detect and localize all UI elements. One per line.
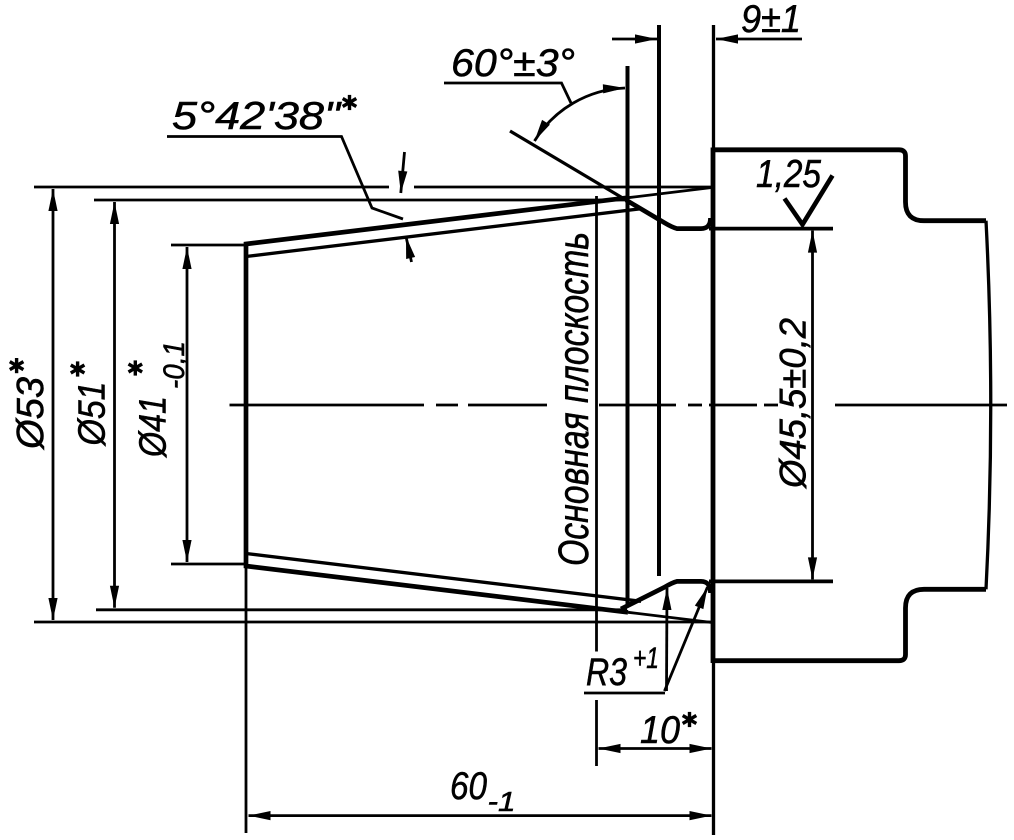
dia51 extension line top (94, 199, 627, 202)
svg-text:1,25: 1,25 (756, 153, 821, 196)
extension line for 10 dim lower part (595, 700, 598, 766)
dia41 extension stub top (171, 244, 247, 247)
extension line below flange face (712, 660, 715, 835)
chamfer + fillet + neck outline top (626, 200, 711, 229)
svg-text:10: 10 (640, 709, 680, 752)
star of dia41 (129, 360, 143, 375)
extension line for 10 dim upper part (595, 196, 598, 652)
svg-text:Ø53: Ø53 (10, 377, 52, 451)
dia41 dimension line (186, 247, 189, 562)
R3 diagonal arrow (665, 587, 708, 691)
svg-text:Ø45,5±0,2: Ø45,5±0,2 (773, 318, 814, 490)
center line (axis) dash-dot (230, 404, 1008, 407)
svg-text:Ø41: Ø41 (133, 396, 175, 459)
svg-text:5°42'38": 5°42'38" (172, 95, 342, 138)
taper top thin continuation to flange face (628, 187, 713, 197)
svg-text:Ø51: Ø51 (72, 382, 114, 448)
svg-text:Основная плоскость: Основная плоскость (550, 232, 598, 566)
svg-text:-0,1: -0,1 (158, 341, 191, 389)
60-degree chamfer thin extension line (top) (510, 131, 626, 200)
dia51 dimension line (113, 202, 116, 608)
60 degree leader (444, 83, 571, 103)
svg-text:60°±3°: 60°±3° (451, 42, 575, 85)
neck extension line right top (for dia 45.5) (709, 227, 833, 231)
svg-text:+1: +1 (633, 642, 659, 675)
flange outline top (713, 150, 986, 221)
break line arc right (986, 221, 991, 590)
svg-text:R3: R3 (586, 651, 627, 694)
svg-text:9±1: 9±1 (741, 0, 801, 41)
svg-text:60: 60 (450, 765, 487, 808)
extension line x659 (657, 25, 661, 576)
dia45.5 dimension line (811, 231, 814, 580)
60 degree arc with arrows (535, 88, 626, 141)
9+-1 dimension line right segment (716, 38, 802, 41)
roughness check mark (785, 176, 833, 225)
dia53 extension line top right part (414, 186, 713, 189)
svg-text:-1: -1 (488, 786, 516, 817)
taper bottom thin continuation to flange face (628, 612, 713, 622)
flange outline bottom (713, 589, 986, 660)
flange left face (711, 148, 716, 664)
cone outline thick (small end edge + top/bottom taper generators) (246, 198, 628, 613)
star mark of taper angle text (343, 95, 357, 110)
dia53 dimension line (52, 189, 55, 620)
extension line above flange face (712, 25, 715, 148)
neck extension line right bottom (709, 580, 833, 584)
dia53 extension line top (with gap for mini arrow) (34, 186, 389, 189)
taper angle mini arrow upper (401, 152, 405, 193)
extension of cone small end edge down (245, 566, 248, 833)
inner thin taper line top (246, 209, 641, 257)
10 dimension line (599, 747, 712, 750)
star of dia53 (10, 358, 24, 373)
60 dimension line (249, 814, 712, 817)
taper angle mini arrow lower (406, 237, 412, 263)
star of dia51 (71, 361, 85, 376)
R3 vertical arrow (665, 588, 668, 691)
dia51 extension line bottom (96, 608, 627, 611)
9+-1 dimension line left segment (612, 38, 657, 41)
chamfer + fillet + neck outline bottom (621, 581, 711, 609)
R3 leader underline (584, 692, 665, 695)
basic plane line (626, 66, 630, 607)
inner thin taper line bottom (246, 554, 641, 602)
dia41 extension stub bottom (171, 563, 247, 566)
5deg42 leader (167, 137, 403, 220)
star mark of 10 dim (683, 712, 697, 727)
dia53 extension line bottom (34, 621, 713, 624)
